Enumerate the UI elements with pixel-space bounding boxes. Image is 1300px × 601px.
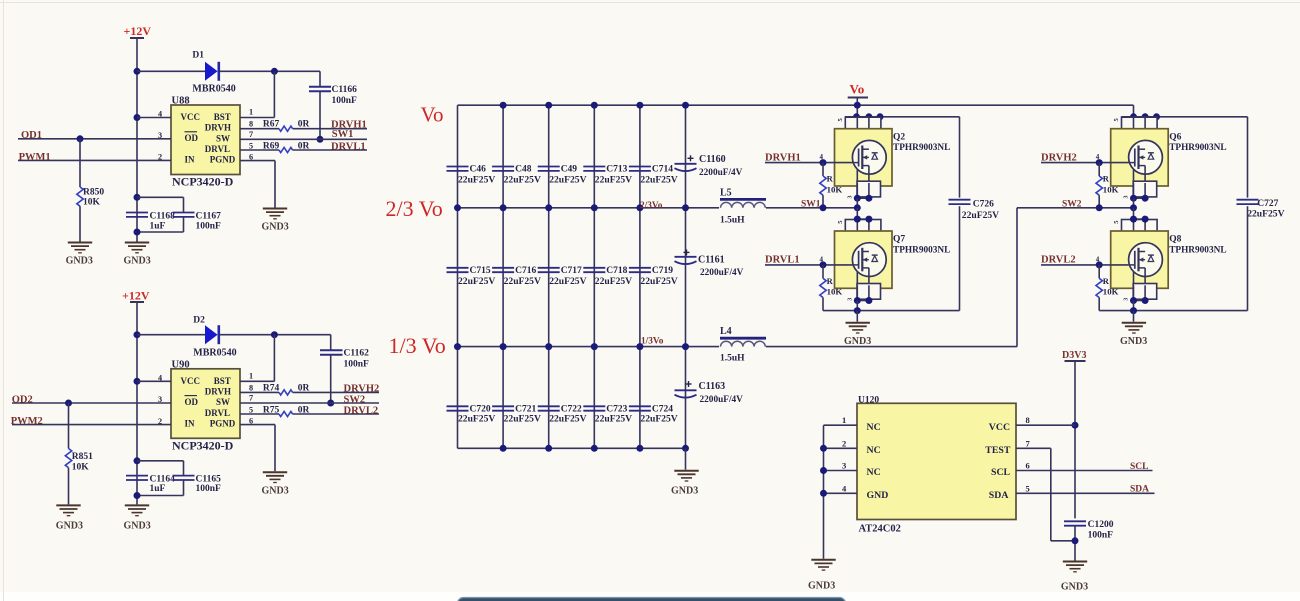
wire SW2 net (U90 pin7) [240,402,379,404]
svg-text:3: 3 [158,395,162,404]
wire cap column 6 [685,105,687,448]
svg-text:NC: NC [867,445,881,456]
svg-text:C49: C49 [561,164,578,174]
svg-text:C1164: C1164 [150,475,176,485]
capacitor C727 [1237,200,1259,204]
ground GND3 (R851) [56,505,80,515]
transistor Q6 [1111,117,1169,208]
svg-text:C1162: C1162 [344,349,370,359]
ground GND3 (U120 left) [811,560,835,570]
svg-text:2200uF/4V: 2200uF/4V [700,395,744,405]
svg-text:6: 6 [1026,461,1030,471]
svg-text:GND3: GND3 [262,486,289,497]
wire Q2 drain rail [845,116,960,118]
wire net PWM1 [18,159,171,161]
capacitor C715 [447,268,469,272]
wire DRVH (U88 pin8) left [240,128,279,130]
svg-text:2200uF/4V: 2200uF/4V [700,268,744,278]
wire net PWM2 [12,424,171,426]
svg-text:+12V: +12V [124,24,152,38]
svg-text:OD: OD [185,397,199,407]
svg-text:DRVL: DRVL [205,408,230,418]
junction BST/D2 [271,331,278,338]
junction ground bus/column [682,445,689,452]
svg-text:VCC: VCC [989,422,1010,433]
svg-text:GND3: GND3 [671,486,698,497]
capacitor C720 [447,406,469,410]
capacitor C1162 [320,350,343,355]
svg-text:NCP3420-D: NCP3420-D [172,175,234,189]
wire C1162 to SW2 [330,355,332,403]
resistor R 10K (Q7) [820,278,826,297]
svg-text:22uF25V: 22uF25V [458,174,495,185]
svg-text:DRVL: DRVL [205,144,230,154]
svg-text:U120: U120 [858,395,879,405]
svg-text:GND3: GND3 [1120,336,1147,347]
wire VCC stub (U90 pin4) [137,380,171,382]
svg-text:GND3: GND3 [1061,582,1088,593]
junction Vo bus/column [500,102,507,109]
svg-text:DRVL2: DRVL2 [344,405,379,416]
junction 2/3Vo bus/column [545,204,552,211]
junction rail/C1168 bottom [134,229,141,236]
svg-text:NC: NC [867,467,881,478]
resistor R851 [65,449,71,468]
junction pin2 tie [820,445,827,452]
junction Q7 drain a [854,216,861,223]
junction Q8 drain a [1130,216,1137,223]
svg-text:0R: 0R [298,142,310,152]
wire net OD1 [18,138,171,140]
svg-text:GND3: GND3 [124,256,151,267]
svg-text:10K: 10K [827,184,843,194]
wire C726 bottom [959,206,961,310]
svg-text:C714: C714 [652,164,673,174]
wire C1166 top [319,71,321,86]
wire net DRVL2 [1041,264,1129,266]
diode D1 [205,62,218,81]
svg-text:2: 2 [842,438,846,448]
svg-text:SDA: SDA [1130,484,1149,494]
wire GND stub (Q7) [856,311,858,322]
junction 1/3Vo bus/column [591,343,598,350]
wire +12V rail (U90) [136,302,138,504]
svg-text:PWM2: PWM2 [11,416,43,427]
junction Q6 drain a [1130,113,1137,120]
svg-text:GND3: GND3 [124,520,151,531]
capacitor C46 [447,167,469,171]
svg-text:3: 3 [842,461,846,471]
resistor R75 [279,411,293,416]
svg-text:3: 3 [158,131,162,140]
junction 2/3Vo bus/column [682,204,689,211]
svg-text:GND3: GND3 [66,256,93,267]
junction pin4 tie [820,490,827,497]
svg-text:100nF: 100nF [196,222,222,232]
inductor L5 [720,198,766,201]
svg-text:D3V3: D3V3 [1062,350,1086,361]
svg-text:C1163: C1163 [699,381,726,392]
inductor L4 [720,337,766,340]
svg-text:DRVH1: DRVH1 [765,152,801,163]
svg-text:R67: R67 [263,120,280,130]
svg-text:8: 8 [249,383,253,392]
svg-text:BST: BST [214,376,231,386]
junction C1166/SW1 [317,136,324,143]
svg-text:10K: 10K [827,287,843,297]
resistor R 10K (Q2) [820,176,826,195]
svg-text:DRVH: DRVH [205,387,231,397]
wire Q6 drain rail [1122,116,1248,118]
svg-text:1: 1 [249,371,253,380]
capacitor C719 [629,268,651,272]
wire BST stub (U88 pin1) [240,117,274,119]
svg-text:100nF: 100nF [1088,531,1114,541]
svg-text:PWM1: PWM1 [19,152,51,163]
junction SW1/R [820,204,827,211]
junction TEST/C1200/GND [1072,537,1079,544]
transistor Q8 [1111,219,1169,310]
wire R bottom (Q2) [822,195,824,208]
svg-text:L4: L4 [720,326,732,337]
wire DRVH (U90 pin8) left [240,391,279,393]
svg-text:22uF25V: 22uF25V [640,276,677,287]
junction Vo bus/column [636,102,643,109]
resistor R 10K (Q8) [1096,278,1102,297]
wire R bottom (Q7) [822,298,824,311]
junction 2/3Vo bus/column [591,204,598,211]
svg-text:10K: 10K [72,462,90,472]
svg-text:2200uF/4V: 2200uF/4V [699,168,743,178]
wire R851 top [68,403,70,449]
junction rail/C1164 bottom [134,492,141,499]
wire U120 pin3 stub [824,470,858,472]
svg-text:GND3: GND3 [844,336,871,347]
capacitor C1168 [126,213,148,217]
svg-text:GND3: GND3 [56,520,83,531]
svg-text:6: 6 [249,417,253,426]
svg-text:22uF25V: 22uF25V [458,414,495,425]
svg-text:Vo: Vo [421,103,444,127]
svg-text:1.5uH: 1.5uH [720,216,745,226]
junction +12V/D2 [134,331,141,338]
wire net DRVL1 [765,264,853,266]
junction rail/C1168 [134,194,141,201]
capacitor C1165 [173,476,195,480]
op-amp U88 body [171,105,240,175]
capacitor C1200 [1064,521,1086,525]
ground GND3 (cap bank) [674,471,698,481]
svg-text:10K: 10K [83,198,101,208]
junction VCC/D3V3 [1072,422,1079,429]
junction +12V/D1 [134,68,141,75]
ground GND3 (U88 rail) [125,243,149,253]
svg-text:1/3Vo: 1/3Vo [641,337,664,347]
junction 2/3Vo bus/column [636,204,643,211]
resistor R69 [279,147,293,152]
svg-text:NC: NC [867,422,881,433]
svg-text:0R: 0R [298,406,310,416]
svg-text:PGND: PGND [210,155,236,165]
capacitor C1166 [309,87,331,92]
junction Q7 source/GND [854,307,861,314]
ground GND3 (R850) [68,243,92,253]
svg-text:C1168: C1168 [150,211,176,221]
node Vo bus [458,104,1134,106]
junction ground bus/column [500,445,507,452]
capacitor C726 [949,200,971,204]
svg-text:R: R [1103,174,1110,184]
capacitor C722 [538,406,560,410]
svg-text:TPHR9003NL: TPHR9003NL [893,143,950,153]
wire SCL net [1016,470,1153,472]
svg-text:SW1: SW1 [801,199,821,209]
wire TEST (U120 pin7) [1016,447,1051,449]
wire cap column 1 [457,105,459,448]
ground GND3 (U88 PGND) [263,209,287,219]
svg-text:22uF25V: 22uF25V [549,174,586,185]
svg-text:DRVH2: DRVH2 [1041,152,1077,163]
svg-text:U88: U88 [172,96,190,107]
svg-text:22uF25V: 22uF25V [549,414,586,425]
junction Vo bus/column [591,102,598,109]
svg-text:TPHR9003NL: TPHR9003NL [1169,246,1226,256]
svg-text:MBR0540: MBR0540 [193,348,236,359]
capacitor C1163 [675,390,697,397]
svg-text:MBR0540: MBR0540 [192,84,235,95]
svg-text:2: 2 [158,417,162,426]
svg-text:SCL: SCL [991,467,1011,478]
svg-text:1/3 Vo: 1/3 Vo [389,333,446,358]
svg-text:OD1: OD1 [21,130,42,141]
wire C1200 bottom [1074,526,1076,561]
wire net DRVH1 [765,162,853,164]
junction Q8 drain b [1142,216,1149,223]
wire DRVL (U90 pin5) left [240,413,279,415]
svg-text:4: 4 [158,110,162,119]
wire C1166 to SW1 [319,91,321,139]
ground GND3 (Q8) [1122,323,1146,333]
wire net DRVH2 [1041,162,1129,164]
wire BST stub (U90 pin1) [240,380,274,382]
wire PGND stub (U90 pin6) [240,424,275,426]
polarity + (C1161) [684,251,690,253]
svg-text:0R: 0R [298,120,310,130]
svg-text:1.5uH: 1.5uH [720,354,745,364]
junction +12V/VCC U90 [134,378,141,385]
svg-text:10K: 10K [1103,184,1119,194]
capacitor C1161 [675,257,697,264]
junction 1/3Vo bus/column [682,343,689,350]
wire D2 cathode to C1162 [220,334,331,336]
wire R bottom (Q6) [1098,195,1100,208]
junction SW1/Q2 source [854,204,861,211]
svg-text:NCP3420-D: NCP3420-D [172,438,234,452]
junction 1/3Vo bus/column [636,343,643,350]
wire cap column 4 [593,105,595,448]
svg-text:+12V: +12V [122,289,150,303]
junction 2/3Vo bus/column [454,204,461,211]
wire U120 NC tie [823,425,825,559]
wire Q8 source bus [1099,310,1247,312]
svg-text:Vo: Vo [850,82,865,97]
svg-text:DRVH2: DRVH2 [344,383,380,394]
junction Vo bus/column [545,102,552,109]
svg-text:22uF25V: 22uF25V [549,276,586,287]
wire DRVH1 net [293,128,367,130]
wire R top (Q7) [822,265,824,278]
svg-text:C1167: C1167 [196,211,222,221]
svg-text:SW1: SW1 [332,129,354,140]
wire VCC (U120 pin8) [1016,424,1075,426]
junction 2/3Vo bus/column [500,204,507,211]
svg-text:C1200: C1200 [1088,520,1114,530]
junction DRVL2/R [1096,261,1103,268]
svg-text:C726: C726 [973,200,994,210]
svg-text:22uF25V: 22uF25V [1247,209,1284,220]
junction SW2/R [1096,204,1103,211]
junction SW2/Q6 source [1130,204,1137,211]
wire C1167 branch bottom [183,217,185,232]
wire 1/3Vo riser [1016,208,1018,347]
capacitor C1164 [126,476,148,480]
capacitor C714 [629,167,651,171]
wire R top (Q8) [1098,265,1100,278]
svg-text:U90: U90 [172,359,190,370]
svg-text:C718: C718 [606,266,627,276]
resistor R74 [279,390,293,395]
svg-text:DRVL1: DRVL1 [765,255,800,266]
wire VCC stub (U88 pin4) [137,117,171,119]
junction Q2 drain b [865,113,872,120]
junction 1/3Vo bus/column [545,343,552,350]
wire U120 pin1 stub [824,424,858,426]
svg-text:7: 7 [249,394,253,403]
svg-text:DRVH: DRVH [205,123,231,133]
junction Q2 drain a [853,113,860,120]
wire SW1 to Q7 drain [856,208,858,219]
svg-text:8: 8 [249,120,253,129]
svg-text:22uF25V: 22uF25V [595,174,632,185]
wire D1 cathode to C1166 [220,70,320,72]
svg-text:OD: OD [185,133,199,143]
svg-text:L5: L5 [720,187,732,198]
svg-text:Q6: Q6 [1169,132,1181,142]
node 2/3Vo bus left [458,207,720,209]
wire C1167 branch top [137,196,184,198]
wire DRVH2 net [293,391,379,393]
svg-text:DRVL1: DRVL1 [331,141,366,152]
svg-text:C1166: C1166 [332,85,358,95]
svg-text:R850: R850 [83,188,104,198]
svg-text:C716: C716 [515,266,536,276]
svg-text:VCC: VCC [181,112,201,122]
capacitor C49 [538,167,560,171]
junction Vo bus/stub [854,102,861,109]
svg-text:8: 8 [1026,415,1030,425]
junction 1/3Vo bus/column [454,343,461,350]
resistor R67 [279,126,293,131]
svg-text:TPHR9003NL: TPHR9003NL [893,246,950,256]
wire cap column 2 [502,105,504,448]
svg-text:22uF25V: 22uF25V [504,174,541,185]
wire R top (Q2) [822,163,824,176]
wire DRVL (U88 pin5) left [240,149,279,151]
svg-text:1: 1 [842,415,846,425]
wire SW1 net (U88 pin7) [240,138,367,140]
svg-text:5: 5 [249,142,253,151]
resistor R 10K (Q6) [1096,176,1102,195]
junction Q7 drain b [865,216,872,223]
svg-text:22uF25V: 22uF25V [640,174,677,185]
junction Q8 source/GND [1130,307,1137,314]
capacitor C723 [583,406,605,410]
svg-text:Q2: Q2 [893,132,905,142]
wire R top (Q6) [1098,163,1100,176]
junction DRVH2/R [1096,159,1103,166]
capacitor C713 [583,167,605,171]
resistor R850 [77,187,83,206]
svg-text:100nF: 100nF [344,360,370,370]
wire D1 anode [137,70,205,72]
ground GND3 (U90 rail) [125,505,149,515]
svg-text:7: 7 [249,130,253,139]
svg-text:10K: 10K [1103,287,1119,297]
svg-text:SDA: SDA [989,490,1009,501]
svg-text:5: 5 [1026,483,1030,493]
svg-text:D2: D2 [193,316,205,326]
junction ground bus/column [545,445,552,452]
svg-text:100nF: 100nF [196,484,222,494]
svg-text:D1: D1 [192,51,204,61]
junction pin3 tie [820,467,827,474]
junction Vo bus/column [682,102,689,109]
wire net OD2 [12,402,171,404]
wire C1165 branch bottom [183,480,185,496]
svg-text:SW: SW [216,133,230,143]
svg-text:4: 4 [158,373,162,382]
wire ground bus stub [685,448,687,469]
transistor Q2 [835,117,893,208]
svg-text:SCL: SCL [1130,462,1148,472]
junction ground bus/column [636,445,643,452]
svg-text:GND3: GND3 [262,222,289,233]
svg-text:R851: R851 [72,452,93,462]
wire GND stub (Q8) [1133,311,1135,322]
svg-text:BST: BST [214,112,231,122]
svg-text:Q8: Q8 [1169,235,1181,245]
svg-text:SW2: SW2 [344,394,366,405]
svg-text:C1160: C1160 [699,154,726,165]
svg-text:22uF25V: 22uF25V [962,210,999,221]
wire Q7 source bus [823,310,960,312]
svg-text:TPHR9003NL: TPHR9003NL [1169,143,1226,153]
junction +12V/VCC U88 [134,114,141,121]
svg-text:SW: SW [216,397,230,407]
node 2/3Vo bus right [766,207,857,209]
svg-text:GND: GND [867,490,889,501]
scrollbar button (bottom) [458,598,846,601]
svg-text:6: 6 [249,153,253,162]
svg-text:R: R [827,174,834,184]
svg-text:C715: C715 [470,266,491,276]
svg-text:C719: C719 [652,266,673,276]
wire Vo bus drop (Q6) [1133,105,1135,117]
wire R850 bottom [79,206,81,241]
op-amp U120 body [857,403,1016,519]
op-amp U90 body [171,369,240,439]
wire PGND stub (U88 pin6) [240,160,275,162]
